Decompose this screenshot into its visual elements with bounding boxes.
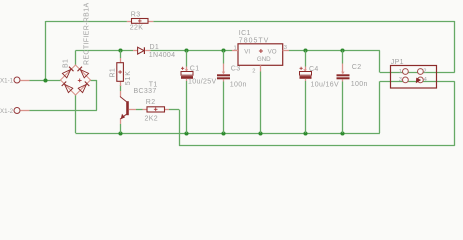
node junction X1-1 / top rail [43, 78, 47, 82]
wire C2 top [342, 51, 344, 64]
svg-text:1: 1 [234, 45, 237, 51]
wire transistor base to R2 [136, 109, 143, 111]
wire C3 bottom [223, 82, 225, 134]
svg-text:C1: C1 [190, 66, 200, 73]
node junction C2 top on output rail [340, 48, 344, 52]
svg-text:1: 1 [399, 69, 402, 75]
wire X1-2 to corner [30, 110, 97, 112]
JP1 origin arrow on pad 4 [416, 78, 421, 84]
wire right vertical from top rail down to JP1 pin2 [454, 21, 456, 73]
resistor R2 pins [143, 109, 148, 111]
diode D1 [138, 47, 144, 54]
svg-text:2: 2 [252, 68, 255, 74]
node junction IC1 GND on ground rail [258, 131, 262, 135]
JP1 pad 3 [403, 77, 409, 83]
IC1 pin 1 [232, 50, 238, 52]
svg-text:GND: GND [257, 56, 271, 63]
wire rail B D1 to IC1 pin 1 [151, 50, 233, 52]
wire JP1 pin1-pin2 row [380, 72, 455, 74]
svg-text:22K: 22K [130, 25, 144, 32]
node junction C4 top on output rail [303, 48, 307, 52]
plus mark B1 [78, 79, 82, 83]
IC1 plus mark [259, 49, 263, 53]
resistor R2 [147, 107, 165, 112]
node junction C3 bottom on ground rail [221, 131, 225, 135]
capacitor C3 pin arrow [223, 64, 225, 74]
wire X1-1 to bridge [30, 80, 61, 82]
capacitor C3 plates [217, 74, 230, 76]
node junction R1 top on rail B [118, 48, 122, 52]
JP1 pad 1 [403, 69, 409, 75]
svg-text:BC337: BC337 [134, 88, 157, 95]
wire JP1 pin3-pin4 row [380, 81, 455, 83]
diode B1 top-right [80, 70, 88, 78]
svg-text:B1: B1 [63, 59, 70, 68]
connector JP1 box [391, 66, 437, 89]
connector X1-1 [21, 80, 30, 82]
transistor T1 base bar [126, 101, 129, 115]
JP1 pad 4 [418, 77, 424, 83]
wire C2 bottom [342, 82, 344, 134]
wire rail B bridge to D1 [76, 50, 134, 52]
resistor R1 [117, 63, 124, 82]
svg-text:2K2: 2K2 [145, 115, 159, 122]
transistor T1 base stub [129, 109, 136, 111]
wire C4 bottom [305, 81, 307, 133]
svg-text:R2: R2 [146, 99, 156, 106]
wire vertical from base wire down to bottom return rail [179, 110, 181, 146]
diode D1 pins [133, 50, 137, 52]
wire JP1 pin4 vertical down right edge [454, 81, 456, 146]
svg-text:X1-1: X1-1 [0, 78, 14, 85]
svg-text:IC1: IC1 [239, 30, 251, 37]
node junction C3 top on rail B [221, 48, 225, 52]
svg-text:10u/25V: 10u/25V [188, 78, 217, 85]
plus mark C1 [181, 67, 184, 70]
node junction C2 bottom on ground rail [340, 131, 344, 135]
wire top rail from input to R3 [46, 21, 127, 23]
capacitor C2 pin arrow [342, 64, 344, 74]
wire R1 bottom to collector [120, 85, 122, 91]
transistor T1 collector lead [120, 97, 126, 102]
JP1 pad 2 [418, 69, 424, 75]
svg-text:R3: R3 [131, 11, 141, 18]
svg-text:VO: VO [268, 48, 277, 55]
wire C3 top [223, 51, 225, 64]
wire emitter down to ground rail [120, 124, 122, 133]
capacitor C1 plates [181, 72, 193, 76]
resistor R3 pins [127, 21, 132, 23]
svg-text:7805TV: 7805TV [239, 37, 270, 44]
voltage regulator IC1 7805TV box [238, 44, 283, 66]
node junction C1 top on rail B [184, 48, 188, 52]
wire ground rail [76, 133, 380, 135]
wire output rail corner down to JP1 pin1 row [379, 51, 381, 73]
wire C1 bottom [186, 81, 188, 133]
transistor T1 emitter pin [120, 119, 122, 124]
svg-text:RECTIFIER-RB1A: RECTIFIER-RB1A [84, 3, 91, 65]
diode B1 bottom-right [78, 84, 86, 92]
node junction emitter on ground rail [118, 131, 122, 135]
svg-text:VI: VI [244, 48, 250, 55]
bridge rectifier B1 body [61, 65, 91, 95]
wire base R2 to corner [169, 109, 179, 111]
wire IC1 output rail [289, 50, 380, 52]
svg-text:X1-2: X1-2 [0, 108, 14, 115]
wire C1 top [186, 51, 188, 67]
wire bridge bottom vertex down to ground rail [75, 95, 77, 133]
transistor T1 emitter lead with arrow [120, 114, 126, 119]
svg-text:100n: 100n [230, 82, 247, 89]
node junction C1 bottom on ground rail [184, 131, 188, 135]
svg-text:3: 3 [399, 77, 402, 83]
capacitor C4 pin arrow [305, 67, 307, 72]
svg-text:JP1: JP1 [391, 59, 404, 66]
svg-text:51K: 51K [125, 70, 132, 85]
svg-text:R1: R1 [109, 68, 116, 78]
capacitor C1 pin arrow [186, 67, 188, 72]
resistor R1 pins [120, 58, 122, 63]
svg-text:C4: C4 [309, 66, 319, 73]
svg-text:3: 3 [284, 45, 287, 51]
capacitor C2 plates [337, 74, 350, 76]
svg-text:10u/16V: 10u/16V [311, 81, 340, 88]
node junction C4 bottom on ground rail [303, 131, 307, 135]
wire bridge right vertex to corner [91, 80, 97, 82]
capacitor C4 plates [300, 72, 312, 76]
plus mark C4 [300, 67, 303, 70]
wire IC1 GND pin down to ground rail [260, 72, 262, 134]
svg-text:100n: 100n [351, 81, 368, 88]
connector X1-2 [21, 110, 30, 112]
wire top rail from R3 to right edge [153, 21, 454, 23]
svg-text:C2: C2 [352, 64, 362, 71]
diode B1 bottom-left [65, 84, 73, 92]
wire bridge top vertex up to rail [75, 51, 77, 66]
diode B1 top-left [62, 70, 70, 78]
svg-text:C3: C3 [231, 65, 241, 72]
transistor T1 collector pin [120, 91, 122, 97]
svg-text:1N4004: 1N4004 [149, 52, 176, 59]
resistor R3 [132, 19, 149, 24]
IC1 pin 2 GND [260, 65, 262, 71]
wire bottom return rail [179, 145, 455, 147]
wire left vertical from top rail down to X1-1 [45, 21, 47, 80]
wire R1 top [120, 51, 122, 59]
svg-text:D1: D1 [150, 44, 160, 51]
wire ground vertical up to JP1 pin3 [379, 81, 381, 133]
IC1 pin 3 [283, 50, 289, 52]
wire C4 top [305, 51, 307, 67]
wire vertical corner up to bridge right vertex [96, 80, 98, 111]
svg-text:2: 2 [423, 68, 426, 74]
